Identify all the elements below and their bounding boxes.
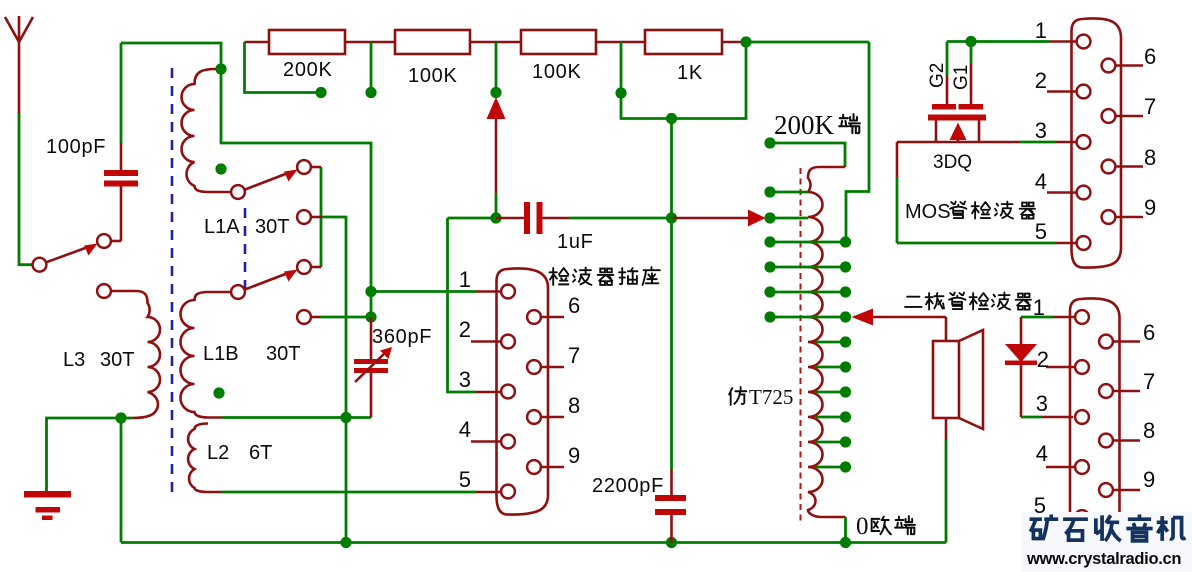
svg-text:30T: 30T (255, 216, 289, 238)
svg-text:5: 5 (1034, 493, 1046, 518)
J1 pin 5 (501, 485, 515, 499)
switch throw circle C2 (297, 210, 311, 224)
capacitor 1uF plates (524, 202, 530, 234)
wire pin1 net to connector (371, 290, 476, 293)
wire R2R3 junction drop (495, 42, 498, 93)
J1 pin 8 stub (541, 416, 564, 419)
wire C1-C3 strap (320, 167, 323, 267)
svg-text:5: 5 (459, 467, 471, 492)
diode D1 cathode lead (1020, 365, 1023, 417)
node T725 top tap 200K (764, 137, 775, 148)
speaker LS1 horn (959, 330, 983, 429)
diode D1 triangle (1005, 344, 1037, 362)
svg-text:T725: T725 (749, 385, 793, 409)
svg-text:www.crystalradio.cn: www.crystalradio.cn (1026, 550, 1181, 568)
J2 pin 9 stub (1116, 216, 1144, 219)
node bus x671 (666, 537, 677, 548)
T725 right tap nodes (840, 236, 851, 247)
wire x671 down to 1uF row (670, 119, 673, 219)
wire 1uF to x671 (569, 217, 672, 220)
node bus x845 (840, 537, 851, 548)
node L3 bottom junction (115, 412, 126, 423)
J3 pin 6 stub (1113, 340, 1140, 343)
J3 pin 1 (1075, 310, 1089, 324)
svg-text:9: 9 (1144, 195, 1156, 220)
wire T725 bottom lead (844, 517, 847, 543)
J2 pin 3 (1077, 135, 1091, 149)
wire G2 drop (946, 42, 949, 77)
svg-text:L1A: L1A (204, 216, 240, 238)
svg-text:100pF: 100pF (46, 136, 106, 158)
connector J2 shell MOS DB9 (1072, 18, 1122, 267)
polarity dot L1A (215, 163, 226, 174)
svg-text:9: 9 (1143, 467, 1155, 492)
svg-text:3: 3 (459, 367, 471, 392)
J3 pin 9 (1099, 483, 1113, 497)
svg-text:2: 2 (1035, 68, 1047, 93)
svg-text:0: 0 (856, 513, 869, 540)
J2 pin 6 stub (1116, 64, 1144, 67)
svg-text:4: 4 (1036, 441, 1048, 466)
svg-text:200K: 200K (774, 110, 835, 140)
transistor Q1 source lead (978, 121, 981, 143)
wire G1 drop (970, 42, 973, 65)
label diode detector (905, 297, 921, 307)
switch throw circle C4 (297, 310, 311, 324)
capacitor C0 100pF plates (104, 170, 138, 176)
wire wiper stem (495, 119, 498, 193)
MOS detector: wire pin1 net (947, 40, 1050, 43)
wire antenna lead green (19, 114, 33, 265)
inductor L1A (182, 69, 231, 192)
wire S0 throw to C0 lead (111, 240, 121, 243)
J2 pin 9 (1102, 210, 1116, 224)
switch S1 common (231, 185, 245, 199)
inductor T725 winding (808, 167, 846, 517)
svg-text:3: 3 (1035, 118, 1047, 143)
svg-text:100K: 100K (408, 65, 458, 87)
svg-text:6: 6 (1144, 44, 1156, 69)
J1 pin 6 (527, 310, 541, 324)
T725 left taps (770, 192, 808, 218)
J2 pin 4 stub (1047, 191, 1077, 194)
switch S2 arrowhead (284, 270, 298, 282)
J2 pin 2 stub (1047, 90, 1077, 93)
polarity dot L1B (213, 387, 224, 398)
wire 1uF row left green (448, 217, 497, 220)
transformer core dashed line long (171, 68, 174, 492)
wire speaker top lead (945, 317, 948, 341)
svg-text:9: 9 (568, 443, 580, 468)
wire C3 lead (311, 266, 321, 269)
transformer core dashed line short (244, 208, 247, 288)
wire C4 lead (311, 316, 320, 319)
wire row right green (746, 41, 869, 44)
connector J1 shell (detector socket DB9) (497, 268, 549, 514)
J2 pin 7 stub (1116, 115, 1144, 118)
J3 pin 7 stub (1113, 390, 1140, 393)
wire resistor row segments (245, 41, 747, 44)
switch S2 common (231, 285, 245, 299)
wire C2 net down to bottom bus (322, 217, 346, 543)
J3 pin 2 (1075, 360, 1089, 374)
node tap x346 (340, 412, 351, 423)
svg-text:L2: L2 (207, 442, 229, 464)
svg-text:G2: G2 (927, 63, 948, 88)
transistor Q1 drain lead (935, 121, 938, 143)
J2 pin 4 (1077, 186, 1091, 200)
node gate net (965, 36, 976, 47)
resistor R2 100K (395, 30, 470, 54)
J1 pin 9 stub (541, 466, 564, 469)
switch S2 arm (245, 273, 288, 290)
J1 pin 2 stub (471, 340, 501, 343)
wire 1uF left lead (496, 217, 524, 220)
arrowhead into T725 tap (748, 210, 766, 227)
svg-text:4: 4 (1035, 169, 1047, 194)
capacitor 360pF arrow (355, 353, 385, 382)
svg-text:7: 7 (1143, 369, 1155, 394)
node x671 y118 (666, 113, 677, 124)
svg-text:MOS: MOS (905, 201, 951, 223)
capacitor 360pF bottom lead (370, 373, 373, 418)
svg-text:1: 1 (1035, 18, 1047, 43)
wire R3R4 net to 1K right (621, 42, 746, 119)
svg-text:200K: 200K (283, 59, 333, 81)
svg-text:3DQ: 3DQ (933, 152, 972, 173)
svg-text:8: 8 (1144, 145, 1156, 170)
capacitor C0 100pF top lead (120, 43, 123, 143)
J3 pin 7 (1099, 384, 1113, 398)
svg-text:L1B: L1B (203, 343, 239, 365)
J2 pin 1 (1077, 35, 1091, 49)
J1 pin 7 stub (541, 366, 564, 369)
wire 200K left elbow (245, 42, 322, 93)
J1 pin 6 stub (541, 316, 564, 319)
J3 pin 3 (1075, 410, 1089, 424)
wiper arrow up (487, 97, 506, 119)
wire diode to pin1 (1021, 316, 1053, 319)
transistor Q1 gate bar G1 (959, 104, 984, 110)
diode D1 anode lead (1020, 317, 1023, 344)
wire C2 lead (311, 216, 322, 219)
svg-text:2: 2 (459, 317, 471, 342)
node 1uF row x496 (490, 212, 501, 223)
wire R1R2 junction drop (370, 42, 373, 93)
wire L3 bottom (47, 418, 133, 491)
node L1A top junction (215, 63, 226, 74)
inductor L3 (111, 291, 160, 418)
wire L3 junction to bus (120, 418, 123, 543)
switch S0 common (33, 258, 47, 272)
wire T725 top tap (770, 143, 845, 167)
J1 pin 9 (527, 460, 541, 474)
J3 pin 5 (1075, 510, 1089, 524)
capacitor 360pF top lead (370, 317, 373, 359)
wire antenna lead red (18, 40, 21, 114)
svg-text:7: 7 (568, 343, 580, 368)
inductor L1B (181, 292, 232, 418)
transformer T725 red dashed core (800, 168, 802, 522)
wire 2200pF bottom lead (670, 515, 673, 543)
T725 full taps (770, 242, 846, 317)
wire L1B/L2 tap to 360pF bottom (222, 416, 371, 419)
switch S1 arm (245, 173, 288, 190)
svg-text:1: 1 (459, 267, 471, 292)
node R2R3 drop (490, 87, 501, 98)
wire 1K net to T725 tap (846, 42, 869, 242)
transistor Q1 substrate arrow (950, 123, 967, 141)
svg-text:G1: G1 (951, 65, 972, 90)
svg-text:L3: L3 (63, 349, 85, 371)
J1 pin 8 (527, 410, 541, 424)
ground GND (24, 491, 71, 498)
svg-text:2: 2 (1037, 347, 1049, 372)
wire MOS drain down (896, 142, 899, 177)
svg-text:5: 5 (1035, 219, 1047, 244)
svg-text:6T: 6T (249, 442, 272, 464)
J1 pin 1 (501, 285, 515, 299)
wire 1uF right lead (543, 217, 570, 220)
J2 pin 2 (1077, 85, 1091, 99)
J2 pin 8 stub (1116, 165, 1144, 168)
J3 pin 2 stub (1046, 366, 1075, 369)
node pin1 net corner (365, 286, 376, 297)
J3 pin 8 stub (1113, 439, 1140, 442)
svg-text:8: 8 (1143, 418, 1155, 443)
wire top net 100pF to L1A top (121, 43, 221, 69)
J2 pin 8 (1102, 160, 1116, 174)
svg-text:1K: 1K (677, 62, 703, 84)
capacitor 2200pF plates (655, 495, 686, 501)
node 1K right (740, 36, 751, 47)
J1 pin 2 (501, 335, 515, 349)
svg-text:8: 8 (568, 393, 580, 418)
node R3R4 drop (615, 87, 626, 98)
J1 pin 3 (501, 385, 515, 399)
switch throw circle C1 (297, 160, 311, 174)
J3 pin 4 (1075, 460, 1089, 474)
node end 200K elbow (315, 87, 326, 98)
inductor L3 top circle (97, 284, 111, 298)
node 360pF top (365, 311, 376, 322)
switch S1 arrowhead (284, 170, 298, 182)
J3 pin 5 stub (1046, 516, 1075, 519)
J2 pin 6 (1102, 59, 1116, 73)
node R1R2 drop (365, 87, 376, 98)
J3 pin 6 (1099, 335, 1113, 349)
switch throw circle C3 (297, 260, 311, 274)
node 1uF row x671 (666, 212, 677, 223)
wire R3R4 junction drop (620, 42, 623, 93)
resistor R3 100K (521, 30, 596, 54)
wire pin3 net vertical (448, 218, 477, 392)
speaker LS1 body (933, 341, 959, 418)
wire to T725 arrow (672, 217, 749, 220)
wire L2 bottom to pin5 (221, 491, 476, 494)
antenna ANT (5, 16, 33, 42)
label jianboqichazuo detector socket (550, 268, 569, 285)
wire MOS drain to pin5 (897, 242, 1056, 245)
svg-text:100K: 100K (532, 61, 582, 83)
label fang T725 (729, 387, 746, 405)
svg-text:6: 6 (568, 293, 580, 318)
transistor Q1 channel bar (928, 115, 986, 121)
wire 360pF top link (370, 292, 373, 318)
node bus x346 (340, 537, 351, 548)
svg-text:3: 3 (1036, 391, 1048, 416)
capacitor C0 100pF bottom lead (120, 187, 123, 242)
svg-text:1: 1 (1033, 295, 1045, 320)
svg-text:2200pF: 2200pF (592, 475, 664, 497)
J1 pin 4 (501, 435, 515, 449)
svg-text:7: 7 (1144, 94, 1156, 119)
wire diode to pin3 (1021, 416, 1042, 419)
bottom bus wire (121, 541, 946, 544)
J1 pin 4 stub (471, 440, 501, 443)
wire T725 tap to speaker (873, 316, 946, 319)
wire 2200pF net vertical (670, 218, 673, 469)
J3 pin 4 stub (1046, 466, 1075, 469)
J3 pin 9 stub (1113, 489, 1140, 492)
T725 right taps (815, 342, 846, 467)
wire C1 lead (311, 166, 321, 169)
J3 pin 8 (1099, 434, 1113, 448)
svg-text:360pF: 360pF (372, 326, 432, 348)
J2 pin 5 (1077, 236, 1091, 250)
svg-text:4: 4 (459, 417, 471, 442)
transistor Q1 gate bar G2 (932, 104, 956, 110)
T725 left tap nodes (764, 186, 775, 197)
J2 pin 7 (1102, 109, 1116, 123)
switch S0 arrowhead (84, 244, 98, 256)
logo kuangshi shouyinji (1030, 515, 1186, 541)
capacitor 360pF plates (354, 359, 388, 364)
wire C4 to 360pF node (320, 316, 371, 319)
svg-text:30T: 30T (100, 349, 134, 371)
inductor L2 (188, 424, 221, 493)
switch S0 arm (47, 247, 89, 262)
resistor R4 1K (645, 30, 722, 54)
wire speaker bottom lead (945, 418, 948, 440)
svg-text:30T: 30T (266, 343, 300, 365)
wire L1A top down to pin1 net (221, 69, 371, 292)
arrowhead into T725 right tap (852, 309, 874, 326)
switch S0 throw (97, 234, 111, 248)
wire MOS source to pin3 (897, 141, 1019, 144)
logo background (1021, 512, 1192, 572)
connector J3 shell diode DB9 (1070, 298, 1120, 545)
resistor R1 200K (269, 30, 345, 54)
J1 pin 7 (527, 360, 541, 374)
diode D1 cathode bar (1005, 361, 1037, 366)
svg-text:1uF: 1uF (557, 231, 594, 253)
svg-text:6: 6 (1143, 320, 1155, 345)
